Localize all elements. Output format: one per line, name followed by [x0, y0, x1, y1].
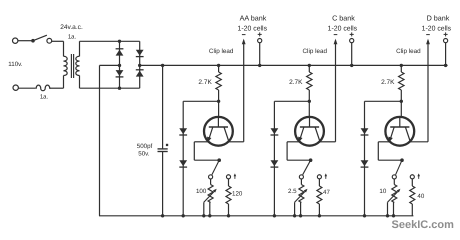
node: rail to R4	[308, 64, 311, 67]
wire: rail to R7	[400, 65, 402, 72]
svg-text:2.7K: 2.7K	[381, 79, 395, 86]
switch S3 contact A	[299, 175, 303, 179]
wire: R2 bottom to rail	[209, 203, 211, 216]
transistor Q1 (NPN pass transistor)	[204, 117, 233, 146]
wire: base lead Q1	[218, 101, 220, 117]
rheostat R8 10 ohm	[392, 185, 397, 203]
node: rail to R7	[400, 64, 403, 67]
wire: emitter jog down	[377, 142, 379, 160]
label: 50v.	[138, 151, 150, 158]
svg-text:Clip lead: Clip lead	[396, 48, 421, 55]
terminal: + clip (bank 2)	[350, 39, 354, 43]
node: diode string to bottom rail	[182, 214, 185, 217]
switch S4 blade	[396, 160, 402, 175]
switch S4 contact A	[392, 175, 396, 179]
wire: jog to switch pivot	[194, 159, 219, 161]
terminal: 110V input bottom	[13, 85, 18, 90]
wire: - clip / collector riser Q2	[335, 41, 337, 142]
label: 1a. (fuse)	[40, 94, 49, 101]
node: + clip on rail	[444, 64, 447, 67]
resistor R1 2.7K	[216, 72, 221, 90]
label: 40	[417, 193, 424, 200]
label: 1-20 cells (bank 2)	[328, 26, 358, 33]
switch S1 blade	[33, 35, 47, 41]
svg-text:2.5: 2.5	[288, 188, 297, 195]
wire: R3 to bottom rail	[228, 204, 230, 216]
label: 1-20 cells (bank 1)	[238, 26, 268, 33]
label: 500pf	[137, 143, 153, 150]
switch S1 contact	[47, 38, 52, 43]
svg-text:120: 120	[232, 191, 243, 198]
wire: C1 top lead	[162, 65, 164, 148]
label: C bank	[332, 14, 355, 23]
resistor R4 2.7K	[307, 72, 312, 90]
svg-text:C bank: C bank	[332, 14, 355, 23]
svg-text:2.7K: 2.7K	[198, 79, 212, 86]
diode D3 (bridge lower-left, cathode down)	[116, 70, 124, 77]
node: wiper tail on bottom rail	[202, 214, 205, 217]
label: 24v.a.c.	[60, 24, 83, 31]
node: rail to C1	[161, 64, 164, 67]
label: + polarity (bank 3)	[444, 32, 448, 36]
fuse F1	[35, 85, 50, 91]
switch S2 pivot	[217, 158, 221, 162]
wire: - output to left drop	[100, 64, 120, 66]
node: R2 on bottom rail	[208, 214, 211, 217]
label: Clip lead (bank 3)	[396, 48, 421, 55]
diode D5	[179, 128, 187, 135]
rheostat R2 100 ohm	[208, 185, 213, 203]
node: rail to R1	[217, 64, 220, 67]
rheostat R5 2.5 ohm	[299, 185, 304, 203]
rheostat R2 wiper arrow	[204, 189, 217, 203]
node: + clip on rail	[350, 64, 353, 67]
resistor R7 2.7K	[399, 72, 404, 90]
wire: fuse to primary bottom	[50, 87, 64, 89]
label: 10	[379, 188, 386, 195]
resistor R3 120 ohm	[226, 186, 231, 204]
diode D7	[271, 128, 279, 135]
node: bridge top / left column	[118, 40, 121, 43]
node: wiper tail on bottom rail	[293, 214, 296, 217]
svg-text:Clip lead: Clip lead	[303, 48, 328, 55]
wire: collector Q1 to riser	[228, 141, 243, 143]
wire: R5 bottom to rail	[300, 203, 302, 216]
label: 1a. (transformer)	[68, 34, 77, 41]
wire: rail to R4	[308, 65, 310, 72]
wire: C1 bottom lead	[162, 152, 164, 216]
wire: jog to switch pivot	[287, 159, 311, 161]
wire: base node to diode string	[183, 100, 218, 102]
wire: + clip to rail	[259, 43, 261, 66]
wire: R9 to bottom rail	[411, 204, 413, 216]
svg-text:40: 40	[417, 193, 424, 200]
node: base junction Q2	[308, 100, 311, 103]
marker: position arrow (bank 1)	[234, 173, 237, 179]
transformer T1 primary lead top	[63, 41, 65, 56]
transformer T1 secondary lead top	[79, 41, 81, 56]
wire: + clip to rail	[445, 43, 447, 66]
marker: position arrow (bank 2)	[325, 173, 328, 179]
wire: base node to diode string	[365, 100, 402, 102]
wire: + clip to rail	[351, 43, 353, 66]
diode D6	[179, 160, 187, 167]
wire: emitter Q1 to jog	[194, 141, 208, 143]
marker: position arrow (bank 3)	[417, 173, 420, 179]
node: + clip on rail	[258, 64, 261, 67]
diode D10	[361, 160, 369, 167]
svg-text:AA bank: AA bank	[240, 14, 267, 23]
wire: contact B to R3	[228, 179, 230, 186]
label: - polarity (bank 3)	[426, 34, 430, 36]
label: 2.7K (2)	[289, 79, 303, 86]
label: + polarity (bank 2)	[350, 32, 354, 36]
wire: switch to primary	[52, 40, 64, 42]
label: 47	[323, 189, 330, 196]
label: 110v.	[8, 61, 22, 68]
resistor R9 40 ohm	[410, 186, 415, 204]
switch S4 pivot	[400, 158, 404, 162]
node: bridge bottom / left column	[118, 87, 121, 90]
label: + polarity (bank 1)	[258, 32, 262, 36]
diode D1 (bridge upper-left, cathode up)	[116, 49, 124, 56]
wire: emitter jog down	[193, 142, 195, 160]
wire: - clip / collector riser Q3	[427, 41, 429, 142]
wire: contact B to R6	[318, 179, 320, 186]
wire: secondary top to bridge top node	[80, 40, 140, 42]
node: R5 on bottom rail	[299, 214, 302, 217]
node: wiper tail on bottom rail	[386, 214, 389, 217]
wire: emitter jog down	[286, 142, 288, 160]
wire: wiper tail to rail	[203, 202, 205, 216]
clip lead - (bank 3) arrow	[426, 39, 430, 45]
wire: contact B to R9	[411, 179, 413, 186]
svg-text:1a.: 1a.	[40, 94, 49, 101]
rheostat R5 wiper arrow	[295, 189, 308, 203]
node: bridge - output	[118, 64, 121, 67]
node: R3 on bottom rail	[227, 214, 230, 217]
wire: diode string drop (bank 1)	[182, 101, 184, 216]
node: R6 on bottom rail	[318, 214, 321, 217]
clip lead - (bank 1) arrow	[242, 39, 246, 45]
wire: R8 bottom to rail	[393, 203, 395, 216]
svg-text:10: 10	[379, 188, 386, 195]
label: D bank	[427, 14, 450, 23]
terminal: + clip (bank 3)	[444, 39, 448, 43]
wire: collector Q3 to riser	[410, 141, 428, 143]
wire: rail to R1	[218, 65, 220, 72]
wire: emitter Q2 to jog	[287, 141, 299, 143]
transformer T1 secondary lead bottom	[79, 76, 81, 89]
switch S2 blade	[212, 160, 219, 175]
svg-text:110v.: 110v.	[8, 61, 22, 68]
node: diode string to bottom rail	[363, 214, 366, 217]
terminal: 110V input top	[13, 38, 18, 43]
wire: R6 to bottom rail	[318, 204, 320, 216]
svg-text:1-20 cells: 1-20 cells	[238, 26, 268, 33]
wire: collector Q2 to riser	[320, 141, 336, 143]
switch S1 pivot	[31, 39, 35, 43]
svg-text:2.7K: 2.7K	[289, 79, 303, 86]
label: AA bank	[240, 14, 267, 23]
wire: wiper tail to rail	[387, 202, 389, 216]
label: 100	[196, 188, 207, 195]
resistor R6 47 ohm	[317, 186, 322, 204]
transistor Q2 (NPN pass transistor)	[295, 117, 324, 146]
diode D9	[361, 128, 369, 135]
wire: bridge right column	[139, 41, 141, 88]
svg-text:D bank: D bank	[427, 14, 450, 23]
switch S2 contact A	[209, 175, 213, 179]
svg-text:SeekIC.com: SeekIC.com	[392, 219, 455, 231]
node: R8 on bottom rail	[392, 214, 395, 217]
node: bridge + output	[138, 64, 141, 67]
wire: contact A to R8	[393, 179, 395, 185]
svg-text:24v.a.c.: 24v.a.c.	[60, 24, 83, 31]
node: C1 to bottom rail	[161, 214, 164, 217]
wire: jog to switch pivot	[378, 159, 402, 161]
switch S3 contact B	[317, 175, 321, 179]
svg-text:1-20 cells: 1-20 cells	[422, 26, 452, 33]
diode D4 (bridge lower-right, cathode up)	[136, 70, 144, 77]
svg-text:50v.: 50v.	[138, 151, 150, 158]
clip lead - (bank 2) arrow	[334, 39, 338, 45]
terminal: + clip (bank 1)	[258, 39, 262, 43]
wire: negative drop (crosses AC wire, no join)	[99, 65, 101, 215]
wire: diode string drop (bank 3)	[364, 101, 366, 216]
switch S4 contact B	[410, 175, 414, 179]
wire: R7 to base node	[400, 90, 402, 101]
switch S3 pivot	[309, 158, 313, 162]
label: 2.7K (1)	[198, 79, 212, 86]
wire: contact A to R5	[300, 179, 302, 185]
wire: + top rail	[140, 64, 448, 66]
rheostat R8 wiper arrow	[388, 189, 401, 203]
label: Clip lead (bank 1)	[209, 48, 234, 55]
label: - polarity (bank 2)	[334, 34, 338, 36]
wire: base lead Q2	[308, 101, 310, 117]
wire: negative bottom rail	[99, 215, 413, 217]
label: 2.7K (3)	[381, 79, 395, 86]
label: - polarity (bank 1)	[242, 34, 246, 36]
svg-text:500pf: 500pf	[137, 143, 153, 150]
switch S3 blade	[303, 160, 311, 175]
wire: base node to diode string	[274, 100, 309, 102]
label: 120	[232, 191, 243, 198]
svg-text:1-20 cells: 1-20 cells	[328, 26, 358, 33]
diode D8	[271, 160, 279, 167]
wire: R1 to base node	[218, 90, 220, 101]
transistor Q3 (NPN pass transistor)	[385, 117, 414, 146]
label: 2.5	[288, 188, 297, 195]
node: diode string to bottom rail	[273, 214, 276, 217]
label: 1-20 cells (bank 3)	[422, 26, 452, 33]
transformer T1 primary lead bottom	[63, 76, 65, 89]
transformer T1 primary winding	[64, 56, 68, 75]
wire: emitter Q3 to jog	[378, 141, 390, 143]
wire: base lead Q3	[400, 101, 402, 117]
svg-text:1a.: 1a.	[68, 34, 77, 41]
wire: R4 to base node	[308, 90, 310, 101]
watermark: SeekIC.com	[392, 219, 455, 231]
wire: bottom terminal to fuse	[18, 87, 35, 89]
wire: bridge left column	[119, 41, 121, 88]
transformer T1 secondary winding	[76, 56, 80, 75]
wire: diode string drop (bank 2)	[273, 101, 275, 216]
svg-text:100: 100	[196, 188, 207, 195]
node: base junction Q3	[400, 100, 403, 103]
wire: secondary bottom to bridge bottom node	[80, 87, 140, 89]
wire: - clip / collector riser Q1	[243, 41, 245, 142]
diode D2 (bridge upper-right, cathode down)	[136, 50, 144, 57]
wire: top terminal to switch pivot	[18, 40, 33, 42]
svg-text:47: 47	[323, 189, 330, 196]
wire: wiper tail to rail	[294, 202, 296, 216]
node: base junction Q1	[217, 100, 220, 103]
transformer T1 core	[71, 54, 73, 78]
label: Clip lead (bank 2)	[303, 48, 328, 55]
wire: contact A to R2	[210, 179, 212, 185]
capacitor C1 500pF 50v	[158, 144, 169, 152]
svg-text:Clip lead: Clip lead	[209, 48, 234, 55]
switch S2 contact B	[226, 175, 230, 179]
